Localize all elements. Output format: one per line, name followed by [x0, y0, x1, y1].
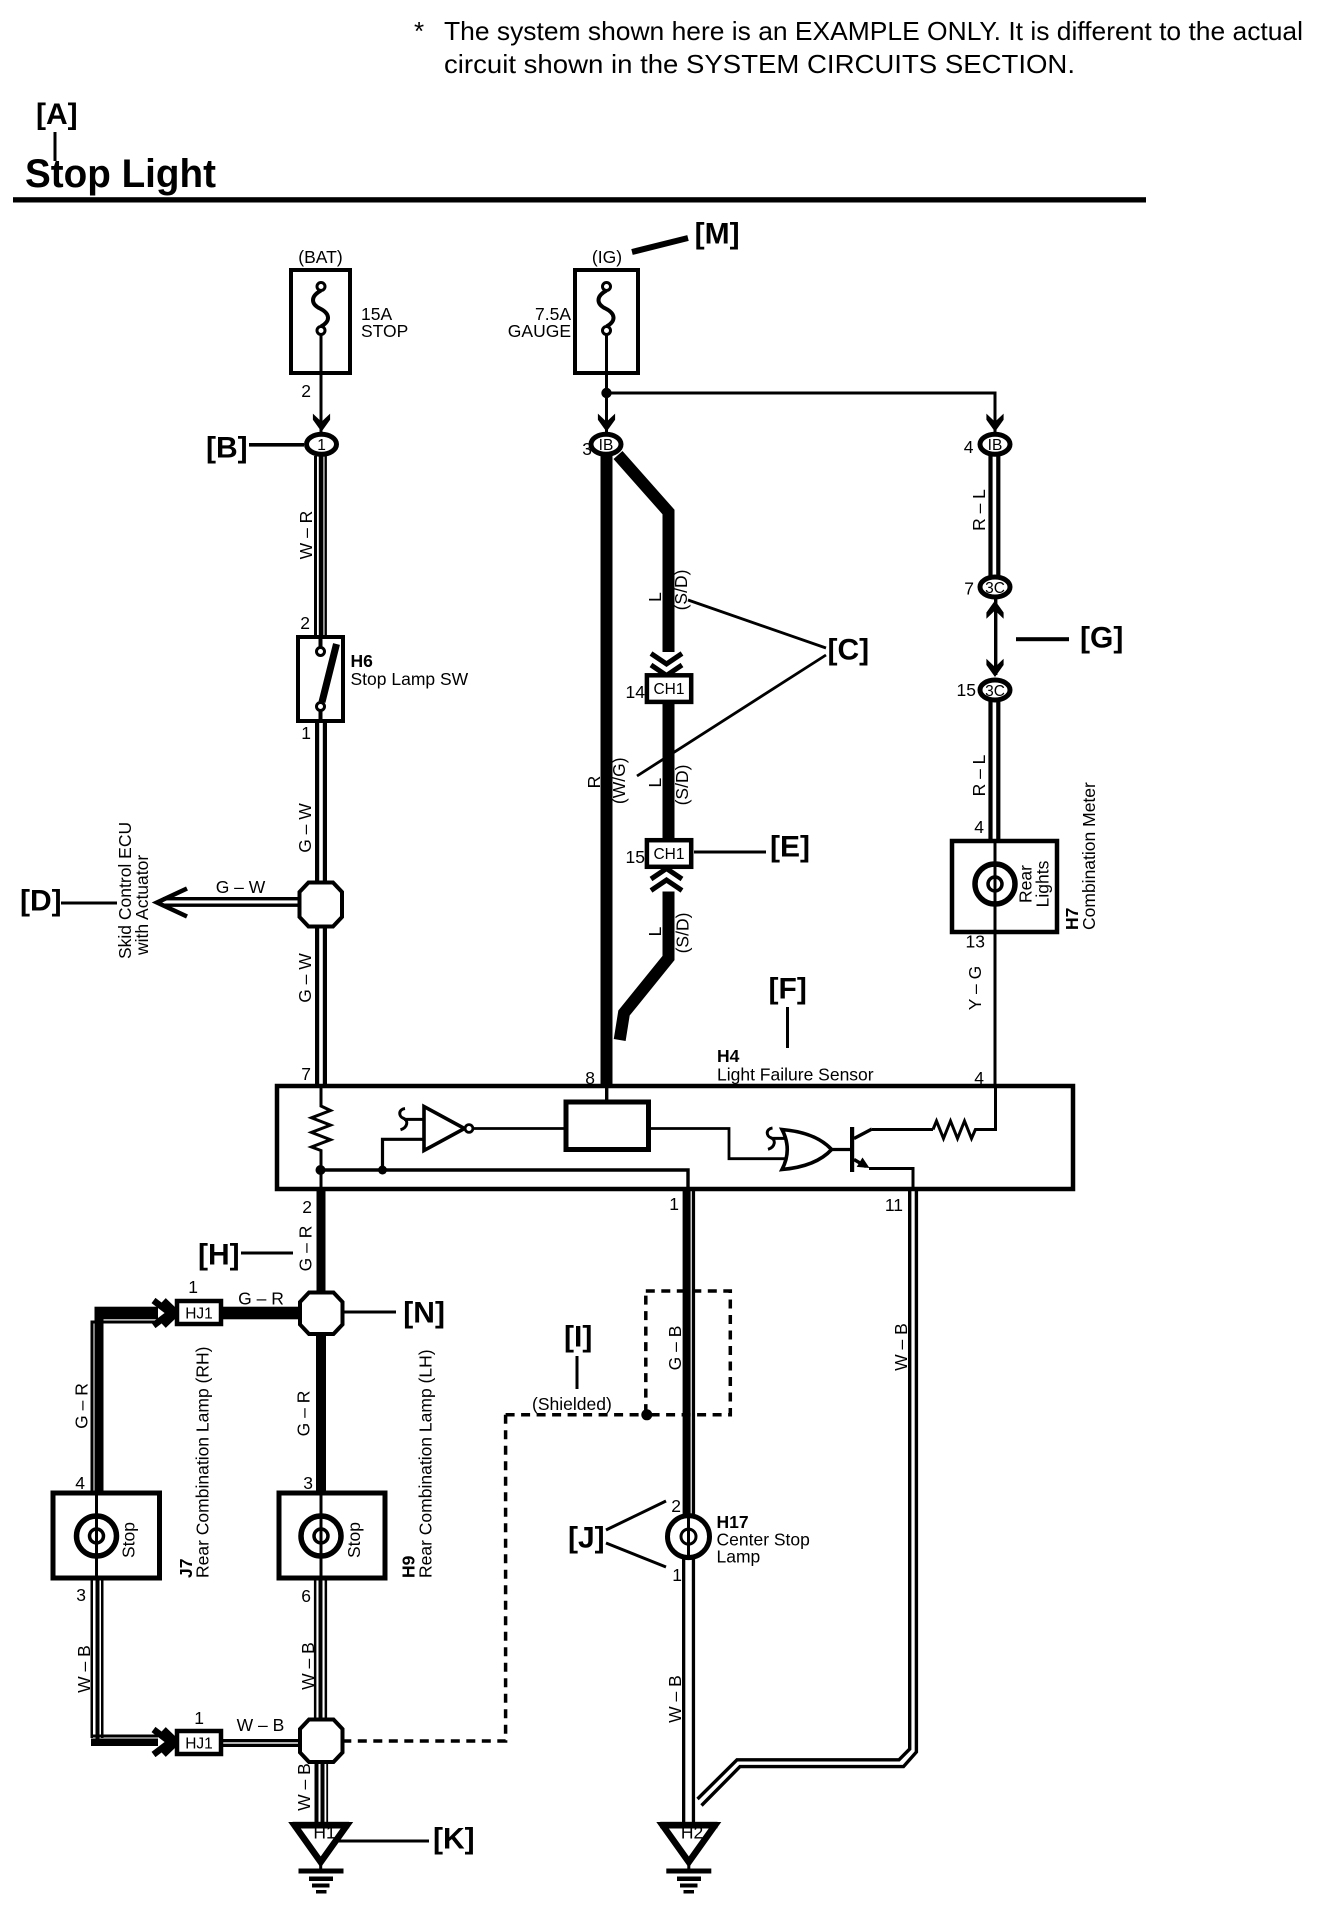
wire G-B pin 1 to center stop lamp (thick+thin)	[683, 1189, 691, 1516]
svg-text:[E]: [E]	[770, 831, 810, 864]
svg-text:1: 1	[672, 1565, 682, 1585]
svg-text:H6: H6	[351, 651, 374, 671]
svg-text:3: 3	[76, 1585, 86, 1605]
junction octagon D	[300, 883, 343, 927]
svg-text:[D]: [D]	[20, 885, 62, 918]
wire G-W switch to junction octagon (double line)	[315, 721, 319, 882]
svg-text:GAUGE: GAUGE	[508, 321, 571, 341]
wire G-W to skid control (double line)	[163, 897, 300, 900]
arrow up to connector 7 3C	[986, 601, 1003, 619]
svg-text:W – B: W – B	[294, 1763, 314, 1811]
svg-text:[I]: [I]	[564, 1321, 592, 1354]
switch H6 box	[298, 637, 343, 721]
wire through combination meter	[994, 841, 997, 932]
svg-text:3: 3	[582, 439, 592, 459]
svg-text:15: 15	[957, 680, 976, 700]
wire W-R connector 1 to stop lamp switch (triple line)	[314, 456, 317, 637]
svg-text:Rear Combination Lamp (RH): Rear Combination Lamp (RH)	[193, 1347, 213, 1578]
label [E] pointer line	[694, 851, 766, 854]
svg-text:4: 4	[974, 1068, 984, 1088]
svg-text:1: 1	[188, 1277, 198, 1297]
wire L (S/D) upper diagonal from IB	[618, 455, 669, 652]
label [F] pointer line	[786, 1007, 789, 1048]
svg-text:H4: H4	[717, 1046, 740, 1066]
arrow down to connector 15 3C	[986, 659, 1003, 677]
shield dashed box	[646, 1291, 731, 1415]
internal wire inverter to comparator block	[473, 1127, 566, 1130]
svg-text:1: 1	[301, 723, 311, 743]
svg-text:W – R: W – R	[296, 511, 316, 560]
arrow into connector 4 IB	[986, 414, 1003, 432]
wire R-L connector 3C to combination meter (double line)	[988, 700, 992, 841]
wire W-B below H9 (triple line)	[314, 1578, 317, 1719]
svg-text:2: 2	[671, 1496, 681, 1516]
shield junction dot	[641, 1409, 652, 1420]
svg-text:L: L	[645, 777, 665, 787]
connector 15 3C oval	[980, 680, 1010, 700]
svg-text:CH1: CH1	[653, 681, 684, 698]
svg-text:[G]: [G]	[1080, 622, 1123, 655]
wire G-R horizontal octagon N to HJ1	[95, 1307, 301, 1320]
center stop lamp H17 bulb	[668, 1516, 710, 1558]
svg-text:(BAT): (BAT)	[298, 247, 342, 267]
svg-text:IB: IB	[988, 437, 1003, 454]
label [B] pointer line	[249, 443, 304, 447]
svg-text:3C: 3C	[985, 580, 1005, 597]
wire W-B octagon N2 to ground H1 (triple line)	[315, 1762, 319, 1822]
wire L (S/D) lower diagonal to pin 8	[620, 892, 669, 1041]
wire fuse STOP to connector 1	[320, 373, 323, 432]
rear lights bulb	[975, 864, 1015, 904]
junction dot node A	[316, 1165, 326, 1175]
label [M] pointer line	[632, 238, 688, 252]
rear combination lamp J7 box	[53, 1493, 160, 1578]
wire through J7	[95, 1493, 98, 1578]
svg-text:(Shielded): (Shielded)	[532, 1394, 612, 1414]
svg-text:G – R: G – R	[238, 1289, 284, 1309]
wire R thick from connector 3 IB to light failure sensor pin 8	[601, 454, 613, 1086]
svg-text:[K]: [K]	[433, 1823, 475, 1856]
wire between 3C connectors	[994, 598, 997, 675]
svg-text:G – R: G – R	[294, 1391, 314, 1437]
svg-text:(S/D): (S/D)	[672, 765, 692, 806]
wire W-B bottom horizontal to HJ1 lower	[91, 1735, 177, 1738]
svg-text:3C: 3C	[985, 683, 1005, 700]
svg-text:1: 1	[317, 437, 326, 454]
fuse 15A STOP element	[313, 283, 328, 374]
svg-text:[F]: [F]	[769, 973, 807, 1006]
svg-text:6: 6	[301, 1586, 311, 1606]
svg-text:with Actuator: with Actuator	[132, 855, 152, 956]
wire W-B below J7 (triple line)	[91, 1578, 94, 1738]
connector HJ1 lower chevrons	[158, 1727, 178, 1758]
svg-text:11: 11	[885, 1195, 903, 1215]
svg-text:CH1: CH1	[653, 846, 684, 863]
label [C] pointer lines	[637, 600, 826, 776]
double chevron out of CH1 pin 15	[651, 869, 682, 891]
fuse 7.5A GAUGE box	[575, 270, 638, 373]
svg-text:HJ1: HJ1	[185, 1735, 213, 1752]
svg-text:L: L	[645, 592, 665, 602]
thin partner line under G-R horizontal	[91, 1321, 177, 1324]
label [G] pointer line	[1016, 637, 1069, 641]
svg-text:IB: IB	[599, 437, 614, 454]
svg-text:[M]: [M]	[695, 218, 740, 251]
svg-text:H1: H1	[313, 1823, 335, 1843]
svg-text:1: 1	[194, 1708, 204, 1728]
wire W-B center stop lamp to ground H2 (double line)	[682, 1555, 685, 1822]
svg-text:2: 2	[300, 613, 310, 633]
wire through H9	[320, 1493, 323, 1578]
svg-text:(S/D): (S/D)	[673, 913, 693, 954]
svg-text:W – B: W – B	[74, 1645, 94, 1693]
connector CH1 pin 15 box	[647, 840, 691, 867]
svg-text:Combination Meter: Combination Meter	[1079, 782, 1099, 930]
OR gate input S symbol	[767, 1128, 774, 1149]
wire G-R left vertical to J7 pin 4 (thin+thick)	[91, 1321, 94, 1494]
svg-text:[N]: [N]	[403, 1297, 445, 1330]
connector 7 3C oval	[980, 577, 1010, 597]
wire G-R octagon N to H9 pin 3	[316, 1334, 326, 1493]
label [H] pointer line	[241, 1252, 293, 1255]
svg-text:7: 7	[301, 1064, 311, 1084]
shield dashed wire to octagon N2	[344, 1415, 646, 1741]
svg-text:4: 4	[974, 817, 984, 837]
wire branch to right column	[607, 392, 996, 395]
svg-text:Stop Light: Stop Light	[25, 152, 216, 196]
svg-text:7: 7	[964, 579, 974, 599]
OR gate U2	[782, 1130, 832, 1170]
svg-text:Lights: Lights	[1033, 860, 1053, 907]
junction dot node B	[378, 1166, 387, 1175]
svg-text:G – R: G – R	[72, 1383, 92, 1429]
junction octagon N2	[300, 1720, 343, 1763]
label [A] pointer line	[54, 132, 57, 161]
svg-text:H2: H2	[681, 1823, 703, 1843]
ground H2	[660, 1822, 717, 1894]
H9 stop bulb	[301, 1516, 341, 1556]
internal wire node B to inverter	[383, 1139, 425, 1170]
connector HJ1 lower box	[177, 1731, 221, 1754]
svg-text:L: L	[645, 926, 665, 936]
internal wire collector to resistor R2	[872, 1128, 933, 1131]
light failure sensor H4 box	[277, 1086, 1073, 1189]
connector 3 IB oval	[591, 434, 621, 454]
label [K] pointer line	[335, 1840, 429, 1843]
switch H6 contacts and lever	[321, 637, 337, 721]
connector HJ1 upper box	[177, 1301, 221, 1324]
label [J] pointer lines	[606, 1501, 666, 1567]
wire G-W octagon to light failure sensor pin 7 (double line)	[315, 927, 319, 1087]
comparator block rectangle	[566, 1102, 649, 1150]
svg-text:13: 13	[966, 932, 985, 952]
wire G-R thick pin 2 to junction octagon N	[317, 1189, 326, 1293]
internal wire block to OR gate	[649, 1129, 787, 1159]
connector HJ1 upper chevrons	[158, 1298, 178, 1329]
svg-text:14: 14	[626, 682, 646, 702]
fuse 15A STOP box	[291, 270, 350, 373]
svg-text:(W/G): (W/G)	[609, 757, 629, 804]
transistor Q1	[850, 1127, 854, 1172]
arrow to skid control ECU	[157, 889, 187, 917]
internal wire from node A to pin 1	[321, 1170, 689, 1189]
wire L (S/D) between CH1 connectors	[663, 702, 675, 840]
svg-text:(IG): (IG)	[592, 247, 622, 267]
svg-text:Light Failure Sensor: Light Failure Sensor	[717, 1065, 874, 1085]
internal wire pin 8 to block	[605, 1086, 608, 1102]
svg-text:R – L: R – L	[969, 489, 989, 531]
svg-text:R: R	[584, 776, 604, 789]
arrow into connector 1	[313, 414, 330, 432]
svg-text:Lamp: Lamp	[717, 1547, 761, 1567]
svg-text:[H]: [H]	[198, 1239, 240, 1272]
title underline rule	[13, 197, 1146, 202]
combination meter H7 box	[952, 841, 1057, 932]
svg-text:[J]: [J]	[568, 1522, 605, 1555]
wire fuse GAUGE down to connector IB	[605, 373, 608, 432]
junction octagon N	[300, 1293, 343, 1335]
double chevron into CH1 pin 14	[651, 654, 682, 676]
svg-text:W – B: W – B	[237, 1715, 285, 1735]
svg-text:R – L: R – L	[969, 754, 989, 796]
J7 stop bulb	[77, 1516, 117, 1556]
svg-text:4: 4	[964, 437, 974, 457]
ground H1	[293, 1822, 350, 1894]
svg-text:Y – G: Y – G	[965, 966, 985, 1010]
svg-text:[A]: [A]	[36, 98, 78, 131]
inverter U1	[424, 1107, 465, 1151]
svg-text:2: 2	[302, 1197, 312, 1217]
svg-text:HJ1: HJ1	[185, 1305, 213, 1322]
svg-text:4: 4	[75, 1473, 85, 1493]
svg-text:8: 8	[585, 1068, 595, 1088]
svg-text:G – W: G – W	[295, 953, 315, 1003]
svg-text:2: 2	[301, 381, 311, 401]
fuse 7.5A GAUGE element	[599, 283, 614, 374]
svg-text:W – B: W – B	[891, 1323, 911, 1371]
resistor R2 internal	[933, 1086, 996, 1139]
svg-text:W – B: W – B	[298, 1642, 318, 1690]
svg-text:(S/D): (S/D)	[671, 570, 691, 611]
svg-text:G – R: G – R	[296, 1226, 316, 1272]
wire R-L connector IB 4 to 3C (double line)	[988, 454, 992, 577]
svg-text:3: 3	[303, 1473, 313, 1493]
wire OR gate to transistor base	[832, 1148, 850, 1151]
label [N] pointer line	[344, 1311, 396, 1314]
svg-text:Stop Lamp SW: Stop Lamp SW	[351, 669, 469, 689]
svg-text:G – W: G – W	[295, 803, 315, 853]
svg-text:circuit shown in the SYSTEM CI: circuit shown in the SYSTEM CIRCUITS SEC…	[444, 49, 1075, 79]
label [D] pointer line	[61, 902, 117, 905]
svg-text:15: 15	[626, 847, 645, 867]
resistor R1 internal	[312, 1086, 331, 1189]
junction dot below fuse GAUGE	[601, 388, 611, 398]
inverter input S symbol	[400, 1109, 407, 1130]
svg-text:Stop: Stop	[119, 1522, 139, 1558]
svg-text:G – B: G – B	[665, 1326, 685, 1371]
svg-text:STOP: STOP	[361, 321, 408, 341]
connector 1 oval	[307, 434, 337, 454]
connector CH1 pin 14 box	[647, 675, 691, 702]
wire Y-G combination meter to light failure sensor pin 4	[994, 932, 997, 1086]
internal wire emitter to pin 11	[869, 1169, 913, 1190]
svg-text:[C]: [C]	[828, 634, 870, 667]
arrow into connector 3 IB	[598, 414, 615, 432]
svg-text:Stop: Stop	[344, 1522, 364, 1558]
svg-text:W – B: W – B	[665, 1675, 685, 1723]
svg-text:G – W: G – W	[216, 877, 266, 897]
svg-text:[B]: [B]	[206, 432, 248, 465]
svg-text:The system shown here is an EX: The system shown here is an EXAMPLE ONLY…	[444, 16, 1303, 46]
wire W-B HJ1 to octagon (double line)	[221, 1739, 300, 1742]
svg-text:1: 1	[669, 1194, 679, 1214]
wire W-B pin 11 to ground H2 (double polyline)	[698, 1189, 917, 1806]
rear combination lamp H9 box	[279, 1493, 385, 1578]
label [I] pointer line	[576, 1356, 579, 1389]
svg-text:Rear Combination Lamp (LH): Rear Combination Lamp (LH)	[416, 1349, 436, 1578]
svg-text:*: *	[414, 16, 424, 46]
connector 4 IB oval	[980, 434, 1010, 454]
